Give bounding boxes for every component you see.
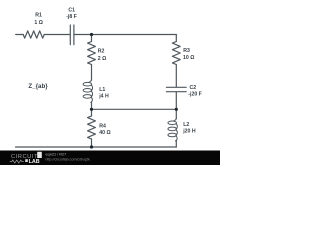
wire node C to node B (middle horizontal) [92, 108, 177, 110]
wire R3 to C2 [175, 65, 177, 87]
svg-text:j20 H: j20 H [182, 129, 196, 135]
svg-text:L1: L1 [99, 87, 105, 93]
node B junction dot [175, 108, 178, 111]
wire C2 to node B [175, 92, 177, 119]
wire top-right corner down to R3 [175, 35, 177, 42]
svg-text:-j20 F: -j20 F [188, 92, 202, 98]
svg-text:R2: R2 [98, 48, 105, 54]
wire L1 to node C [91, 102, 93, 109]
node A junction dot [90, 33, 93, 36]
svg-text:1 Ω: 1 Ω [34, 20, 43, 26]
svg-text:C1: C1 [68, 8, 75, 14]
footer black bar [0, 151, 220, 166]
node A branch: wire to R2 [91, 35, 93, 42]
svg-text:R1: R1 [35, 13, 42, 19]
resistor R2 [88, 42, 96, 65]
svg-text:LAB: LAB [29, 159, 40, 165]
resistor R4 [88, 116, 96, 139]
CircuitLab logo white square before LAB [25, 159, 28, 162]
svg-text:R4: R4 [99, 123, 106, 129]
wire bottom rail [16, 146, 177, 148]
svg-text:C2: C2 [190, 85, 197, 91]
wire R4 to bottom rail [91, 139, 93, 147]
capacitor C1 [70, 25, 74, 45]
wire L2 to bottom rail [175, 141, 177, 147]
CircuitLab logo resistor squiggle [10, 160, 24, 163]
CircuitLab logo cursor block [37, 152, 42, 158]
svg-text:10 Ω: 10 Ω [183, 55, 194, 61]
capacitor C2 [166, 87, 186, 91]
inductor L2 [168, 118, 177, 141]
svg-text:http://circuitlab.com/c/6vq3k: http://circuitlab.com/c/6vq3k [46, 157, 91, 161]
resistor R3 [172, 42, 180, 65]
svg-text:eqn21 / R27: eqn21 / R27 [46, 153, 67, 157]
wire C1 to node A and to top-right corner [74, 34, 176, 36]
svg-text:L2: L2 [183, 122, 189, 128]
wire node C down to R4 [91, 109, 93, 116]
resistor R1 [23, 31, 44, 38]
svg-text:Z_{ab}: Z_{ab} [28, 83, 48, 90]
svg-text:40 Ω: 40 Ω [99, 130, 110, 136]
wire top-left lead [16, 34, 24, 36]
node C junction dot [90, 108, 93, 111]
bottom rail junction dot [90, 145, 93, 148]
svg-text:R3: R3 [183, 48, 190, 54]
svg-text:2 Ω: 2 Ω [98, 56, 107, 62]
svg-text:-j8 F: -j8 F [66, 14, 77, 20]
inductor L1 [83, 80, 92, 103]
wire R2 to L1 [91, 65, 93, 81]
wire R1 to C1 [44, 34, 70, 36]
svg-text:j4 H: j4 H [98, 94, 109, 100]
